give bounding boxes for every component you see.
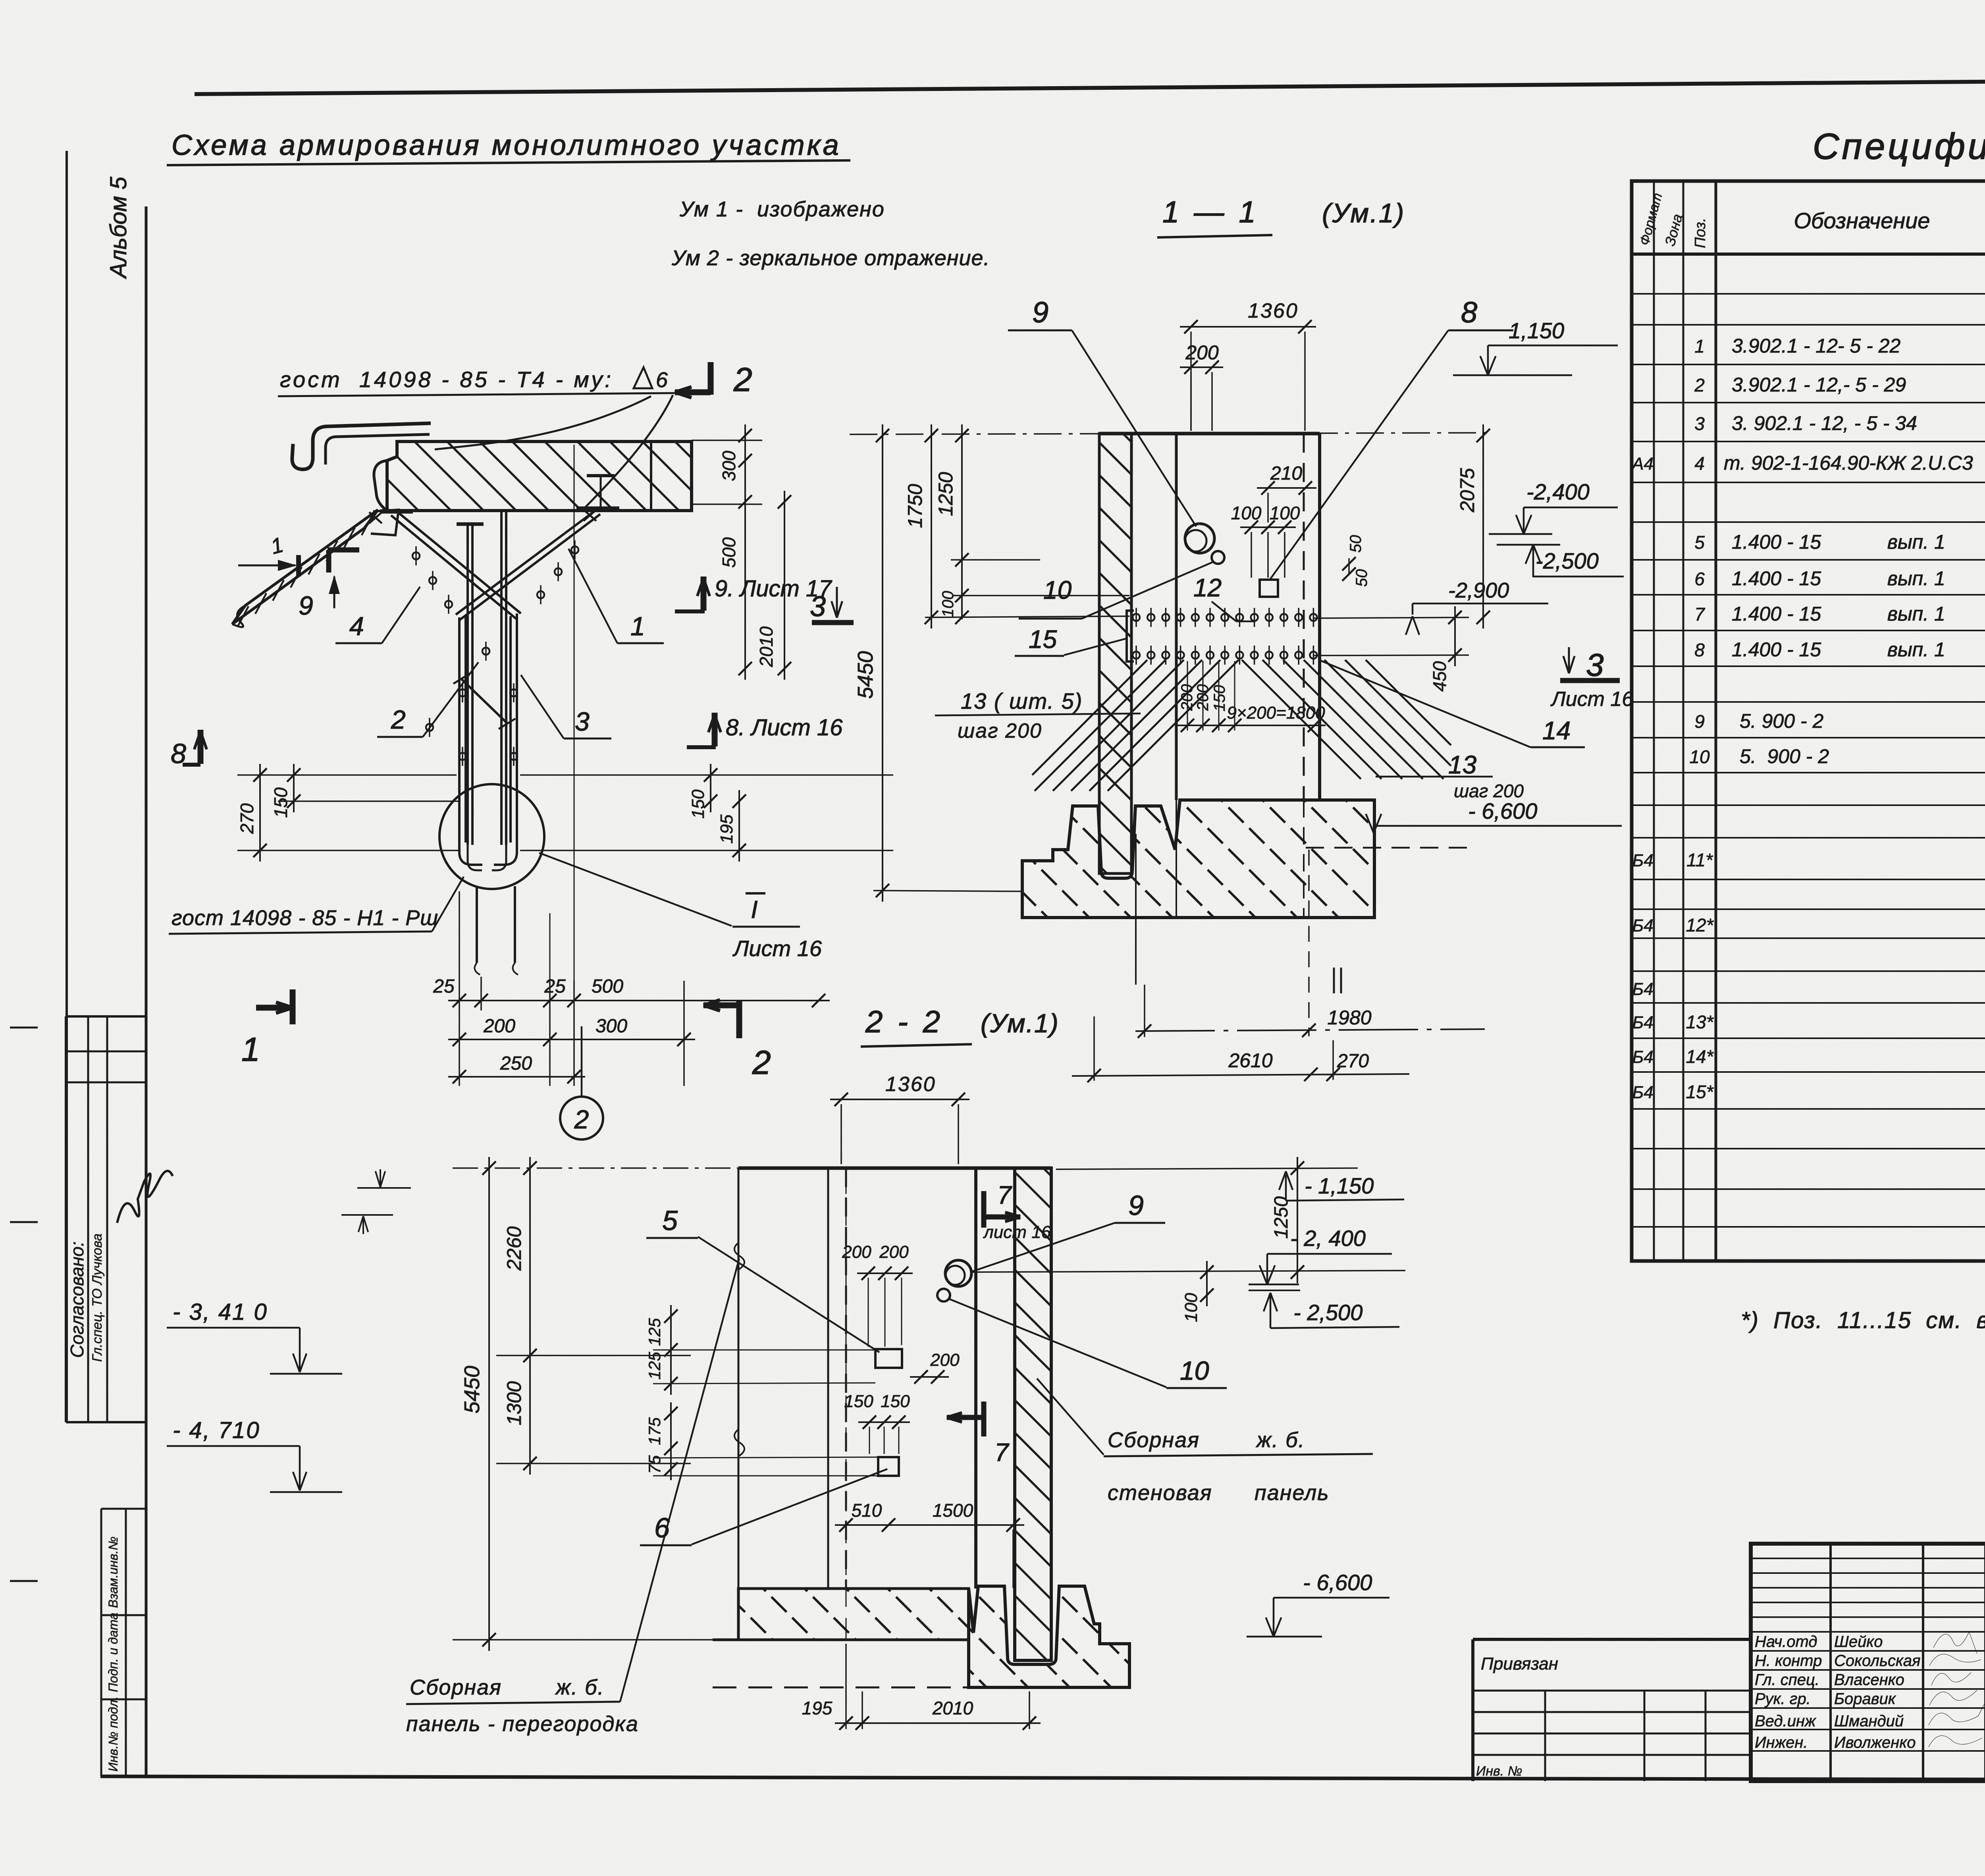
svg-text:300: 300	[719, 451, 739, 481]
svg-text:510: 510	[852, 1500, 882, 1521]
small dims 125/125/175/75 (2-2)	[670, 1305, 672, 1395]
svg-text:панель: панель	[1255, 1481, 1330, 1505]
leader from N1 note to hook	[432, 877, 464, 931]
section 1-1: anchor dots row 1	[1133, 614, 1140, 621]
svg-text:8. Лист 16: 8. Лист 16	[726, 715, 843, 740]
frame top border	[195, 78, 1985, 94]
svg-text:Иволженко: Иволженко	[1834, 1734, 1916, 1751]
svg-text:Рук. гр.: Рук. гр.	[1755, 1690, 1811, 1708]
svg-text:ж. б.: ж. б.	[555, 1675, 605, 1699]
svg-text:1: 1	[1694, 336, 1705, 357]
svg-text:панель - перегородка: панель - перегородка	[406, 1712, 639, 1736]
svg-text:270: 270	[237, 803, 257, 834]
dim 200/200 above square (2-2)	[857, 1273, 913, 1274]
svg-text:13 ( шт. 5): 13 ( шт. 5)	[961, 688, 1083, 713]
svg-text:- 6,600: - 6,600	[1303, 1570, 1372, 1595]
svg-text:13: 13	[1448, 750, 1477, 779]
left hook dims 270/150	[259, 764, 261, 862]
panel hatch strokes	[362, 515, 373, 535]
svg-text:15: 15	[1029, 625, 1057, 654]
svg-text:125: 125	[645, 1318, 664, 1346]
section mark 1 (bottom)	[290, 989, 296, 1024]
svg-text:100: 100	[1181, 1293, 1201, 1322]
leader curves from weld note	[584, 395, 673, 508]
section 1-1: foundation dashed lines	[1306, 847, 1469, 849]
svg-text:Б4: Б4	[1632, 1047, 1653, 1067]
section 2-2: inner thick line	[974, 1168, 977, 1589]
section 2-2: foundation bottom lines	[713, 1639, 969, 1641]
left dim chain 2260/1300 (2-2)	[453, 1167, 738, 1169]
detail circle (node I)	[439, 784, 544, 889]
svg-text:Инв. №: Инв. №	[1476, 1764, 1522, 1779]
section 1-1: foundation outline	[1022, 800, 1374, 918]
svg-text:5. 900 - 2: 5. 900 - 2	[1740, 710, 1823, 732]
svg-text:Б4: Б4	[1632, 979, 1653, 999]
section 1-1: gland sleeve Du150 (pos 9)	[1185, 524, 1214, 553]
svg-text:8: 8	[1461, 296, 1477, 329]
svg-text:Взам.инв.№: Взам.инв.№	[106, 1537, 120, 1608]
svg-text:3: 3	[810, 591, 826, 623]
bottom dims of 1-1: 2610 / 270	[1072, 1074, 1409, 1076]
svg-text:7: 7	[997, 1181, 1012, 1209]
svg-text:4: 4	[349, 611, 364, 641]
svg-text:2260: 2260	[503, 1226, 525, 1271]
svg-text:Ум 2 - зеркальное отражение.: Ум 2 - зеркальное отражение.	[671, 246, 990, 270]
svg-text:1360: 1360	[1248, 299, 1299, 322]
bottom dims of 1-1: 1980	[1135, 1029, 1485, 1031]
approval strip box	[65, 1016, 67, 1422]
svg-text:1500: 1500	[933, 1500, 973, 1521]
svg-text:14*: 14*	[1686, 1046, 1714, 1067]
total 5450 (2-2)	[488, 1157, 490, 1651]
svg-text:100: 100	[1270, 503, 1300, 523]
svg-text:100: 100	[1231, 503, 1262, 523]
svg-text:150: 150	[270, 787, 291, 818]
detail: panel tip interlock block	[371, 510, 399, 535]
svg-text:т. 902-1-164.90-КЖ 2.U.С3: т. 902-1-164.90-КЖ 2.U.С3	[1724, 452, 1973, 474]
svg-text:175: 175	[645, 1417, 664, 1445]
section mark 2 (top)	[708, 362, 714, 395]
svg-text:250: 250	[500, 1053, 532, 1074]
svg-text:лист 16: лист 16	[983, 1222, 1051, 1242]
thin upper rows of staff table	[1751, 1558, 1985, 1559]
dim 150/150 (2-2)	[858, 1421, 910, 1423]
twin stub lines below foundation	[1333, 968, 1335, 993]
svg-text:Шейко: Шейко	[1834, 1633, 1883, 1650]
left dim chain 1750/1250/100 (1-1)	[925, 616, 1129, 617]
section 2-2: embed square pos5	[875, 1349, 902, 1368]
svg-text:- 4, 710: - 4, 710	[173, 1417, 260, 1443]
svg-text:Поз.: Поз.	[1692, 218, 1709, 248]
svg-text:200: 200	[1185, 341, 1219, 364]
svg-text:2: 2	[574, 1105, 589, 1134]
dim 100 100 (1-1)	[1240, 526, 1296, 528]
detail: bottom dim line 25/25/500	[448, 1000, 830, 1001]
section mark 2 (bottom)	[736, 1001, 742, 1038]
svg-text:500: 500	[592, 976, 623, 997]
svg-text:200: 200	[879, 1242, 909, 1262]
svg-text:5: 5	[662, 1205, 678, 1236]
svg-text:1 — 1: 1 — 1	[1162, 195, 1259, 229]
section 1-1: embed plate MH (pos 8)	[1260, 580, 1278, 597]
svg-text:А4: А4	[1631, 454, 1654, 474]
dim 195/2010 (2-2)	[835, 1722, 1041, 1724]
svg-text:200: 200	[1178, 684, 1196, 711]
svg-text:3: 3	[1694, 413, 1705, 434]
svg-text:(Ум.1): (Ум.1)	[1322, 198, 1405, 228]
section 2-2: mirror dashed line	[845, 1168, 847, 1589]
right side dim chain 300/500/2010	[692, 440, 762, 441]
section 1-1: bracket at dots	[1127, 611, 1134, 661]
right dim 100 (2-2)	[1206, 1261, 1208, 1306]
svg-text:50: 50	[1347, 535, 1364, 553]
section 1-1: dashed edge into foundation	[1303, 800, 1305, 918]
fold marks on left edge	[10, 1027, 38, 1029]
svg-text:Спецификация Ум 1, Ум 2.: Спецификация Ум 1, Ум 2.	[1813, 126, 1985, 167]
svg-text:2010: 2010	[932, 1698, 973, 1718]
svg-text:2010: 2010	[756, 626, 777, 667]
svg-text:1250: 1250	[935, 472, 957, 516]
central hanger 2	[500, 511, 503, 845]
extension stubs below foundation	[1144, 985, 1145, 1037]
spec table header	[1632, 253, 1985, 256]
spec table outer box	[1632, 181, 1985, 1261]
svg-text:9: 9	[1032, 296, 1048, 329]
svg-text:3. 902.1 - 12, - 5 - 34: 3. 902.1 - 12, - 5 - 34	[1732, 412, 1917, 434]
svg-text:Вед.инж: Вед.инж	[1755, 1712, 1816, 1730]
svg-text:1980: 1980	[1327, 1006, 1371, 1029]
svg-text:150: 150	[881, 1392, 910, 1411]
svg-text:1750: 1750	[904, 484, 926, 528]
svg-text:270: 270	[1337, 1051, 1369, 1072]
svg-text:25: 25	[544, 976, 566, 997]
svg-text:13*: 13*	[1686, 1012, 1714, 1032]
svg-text:14: 14	[1542, 716, 1571, 745]
svg-text:I: I	[751, 896, 757, 924]
svg-text:1: 1	[630, 611, 645, 641]
stirrup dots on stem	[459, 689, 466, 696]
svg-text:Ум 1 - изображено: Ум 1 - изображено	[679, 197, 885, 221]
svg-text:Сборная: Сборная	[410, 1675, 502, 1699]
section 1-1: joint line	[1175, 434, 1178, 800]
svg-text:9×200=1800: 9×200=1800	[1227, 703, 1325, 723]
total dim 5450 (1-1)	[882, 424, 883, 902]
svg-text:Обозначение: Обозначение	[1794, 208, 1930, 233]
svg-text:Гл.спец. ТО Лучкова: Гл.спец. ТО Лучкова	[90, 1234, 105, 1362]
small level flags near 2-2 top-left	[380, 1169, 381, 1186]
svg-text:Б4: Б4	[1632, 851, 1653, 870]
svg-text:1.400 - 15 вып. 1: 1.400 - 15 вып. 1	[1732, 531, 1945, 553]
section 1-1: precast panel strip (hatched)	[1099, 434, 1131, 873]
detail: dim line 200/300	[448, 1039, 695, 1040]
svg-text:6: 6	[656, 368, 668, 392]
svg-text:2: 2	[1694, 375, 1705, 395]
section 1-1: gland sleeve Du50 (pos 10)	[1212, 551, 1224, 564]
detail: inclined precast panel (hatched)	[232, 510, 378, 624]
svg-text:- 2,500: - 2,500	[1293, 1300, 1363, 1325]
svg-text:2 - 2: 2 - 2	[865, 1004, 943, 1039]
diagonal fixer bar with end ticks	[461, 679, 507, 723]
svg-text:5450: 5450	[854, 651, 877, 699]
approval strip: signature squiggle	[117, 1171, 173, 1223]
svg-text:3: 3	[1586, 647, 1604, 683]
svg-text:Власенко: Власенко	[1834, 1671, 1904, 1689]
svg-text:3.902.1 - 12- 5 - 22: 3.902.1 - 12- 5 - 22	[1732, 335, 1900, 357]
lower stamp strip boxes	[100, 1509, 102, 1776]
svg-text:195: 195	[802, 1698, 833, 1718]
svg-text:Согласовано:: Согласовано:	[67, 1242, 87, 1358]
svg-text:2: 2	[733, 361, 752, 398]
svg-text:7: 7	[994, 1438, 1010, 1467]
detail: panel break line	[232, 605, 245, 627]
svg-text:6: 6	[1694, 569, 1705, 589]
privyazan table	[1473, 1638, 1751, 1641]
sheet outer left edge line	[66, 151, 68, 1422]
svg-text:12*: 12*	[1686, 915, 1714, 935]
extension verticals for bottom dims	[549, 981, 551, 1086]
svg-text:Б4: Б4	[1632, 1013, 1653, 1032]
svg-text:*) Поз. 11...15 см. ведомо: *) Поз. 11...15 см. ведомость деталей на…	[1741, 1307, 1985, 1333]
detail: top slab with hatch	[387, 442, 692, 511]
svg-text:гост 14098 - 85 - Н1 - Рш: гост 14098 - 85 - Н1 - Рш	[172, 906, 438, 930]
svg-text:- 1,150: - 1,150	[1305, 1173, 1374, 1198]
dim 510/1500 (2-2)	[835, 1524, 1024, 1526]
right dim 1250 (2-2)	[973, 1271, 1405, 1272]
svg-text:8: 8	[1694, 640, 1705, 660]
frame bottom border	[100, 1776, 1985, 1780]
section 1-1: axis line at wall top	[850, 433, 1489, 434]
svg-text:-2,400: -2,400	[1526, 479, 1590, 504]
svg-text:1.400 - 15 вып. 1: 1.400 - 15 вып. 1	[1732, 603, 1945, 625]
svg-text:гост 14098 - 85 - Т4 - му:: гост 14098 - 85 - Т4 - му:	[280, 367, 613, 392]
svg-text:10: 10	[1180, 1356, 1209, 1385]
svg-text:100: 100	[939, 591, 957, 617]
svg-text:1360: 1360	[885, 1073, 936, 1096]
svg-text:4: 4	[1694, 453, 1705, 474]
section 1-1: joint line continuation through foundation	[1176, 800, 1177, 918]
svg-text:500: 500	[719, 537, 739, 568]
svg-text:Гл. спец.: Гл. спец.	[1755, 1671, 1819, 1689]
svg-text:Н. контр: Н. контр	[1755, 1652, 1822, 1670]
panel walls below joint	[476, 886, 478, 963]
Y reinforcement left leg (double bar, crosses to right stem bar)	[391, 515, 517, 619]
leader from circle to node mark	[539, 853, 732, 926]
section 2-2: gland Du150	[945, 1260, 971, 1286]
svg-text:Инжен.: Инжен.	[1755, 1734, 1808, 1751]
svg-text:-2,900: -2,900	[1448, 578, 1509, 602]
section mark 7 lower	[981, 1402, 987, 1436]
dim 450 (right)	[1314, 617, 1469, 618]
svg-text:150: 150	[688, 789, 708, 819]
svg-text:10: 10	[1689, 746, 1710, 767]
svg-text:50: 50	[1353, 569, 1370, 587]
svg-text:125: 125	[645, 1352, 664, 1380]
slab joint line right	[650, 442, 652, 511]
svg-text:300: 300	[595, 1016, 627, 1037]
svg-text:Нач.отд: Нач.отд	[1755, 1633, 1817, 1650]
svg-text:- 6,600: - 6,600	[1468, 798, 1537, 823]
section 1-1: anchor dots row 2	[1133, 652, 1140, 659]
svg-text:- 2, 400: - 2, 400	[1290, 1226, 1366, 1251]
svg-text:- 3, 41 0: - 3, 41 0	[173, 1299, 268, 1325]
anchor T on slab right	[600, 476, 602, 509]
svg-text:450: 450	[1429, 661, 1450, 692]
svg-text:Шмандий: Шмандий	[1834, 1712, 1904, 1730]
svg-text:3: 3	[575, 707, 590, 736]
svg-text:1250: 1250	[1271, 1196, 1292, 1239]
svg-text:Боравик: Боравик	[1834, 1690, 1896, 1708]
svg-text:Подп. и дата: Подп. и дата	[106, 1613, 120, 1692]
svg-text:12: 12	[1193, 573, 1222, 602]
svg-text:1.400 - 15 вып. 1: 1.400 - 15 вып. 1	[1732, 567, 1945, 590]
svg-text:(Ум.1): (Ум.1)	[981, 1008, 1059, 1038]
stem right double bar	[509, 616, 512, 843]
svg-text:шаг 200: шаг 200	[958, 719, 1042, 742]
svg-text:1300: 1300	[503, 1381, 525, 1425]
svg-text:Б4: Б4	[1632, 1083, 1653, 1102]
svg-text:5450: 5450	[460, 1366, 484, 1413]
section 1-1: bar fan lower-right (pos 13)	[1242, 660, 1361, 779]
svg-text:2075: 2075	[1456, 468, 1478, 513]
svg-text:25: 25	[433, 976, 455, 997]
svg-text:3.902.1 - 12,- 5 - 29: 3.902.1 - 12,- 5 - 29	[1732, 374, 1906, 396]
section 2-2: embed square pos6	[878, 1457, 899, 1476]
svg-text:9: 9	[299, 591, 313, 620]
title block outer	[1751, 1544, 1985, 1781]
svg-text:5. 900 - 2: 5. 900 - 2	[1740, 745, 1829, 767]
detail: slab left curb (rounded channel)	[292, 423, 431, 469]
svg-text:9: 9	[1128, 1190, 1144, 1221]
svg-text:1: 1	[241, 1031, 260, 1068]
dim 2075 (right)	[1482, 424, 1484, 629]
svg-text:11*: 11*	[1686, 850, 1713, 870]
staff columns	[1829, 1544, 1832, 1781]
svg-text:150: 150	[844, 1392, 873, 1411]
svg-text:1.400 - 15 вып. 1: 1.400 - 15 вып. 1	[1732, 638, 1945, 661]
svg-text:Лист 16: Лист 16	[732, 936, 822, 961]
right hook dims 150/195	[520, 774, 893, 776]
section mark 9 (left)	[328, 548, 359, 553]
bottom hooks of stem bars	[459, 843, 482, 865]
weld x marks	[369, 512, 382, 523]
svg-text:Схема армирования монолитного: Схема армирования монолитного участка	[172, 129, 841, 161]
svg-text:2610: 2610	[1228, 1049, 1272, 1072]
section 2-2: foundation left slab	[738, 1589, 969, 1640]
svg-text:Сборная: Сборная	[1108, 1428, 1200, 1452]
staff rows	[1751, 1650, 1985, 1652]
central hanger 1 with T head	[457, 523, 484, 526]
svg-text:195: 195	[717, 814, 736, 844]
section 1-1: dashed edge line	[1303, 434, 1305, 800]
frame left border	[145, 206, 148, 1777]
section 2-2: gland Du50	[937, 1289, 950, 1301]
Y reinforcement right leg (double bar, crosses to left stem bar)	[459, 514, 600, 620]
svg-text:2: 2	[752, 1044, 771, 1081]
svg-text:200: 200	[1194, 684, 1212, 711]
svg-text:150: 150	[1211, 685, 1228, 711]
svg-text:200: 200	[930, 1350, 960, 1370]
svg-text:Сокольская: Сокольская	[1834, 1652, 1920, 1670]
dim 200 (1-1)	[1180, 366, 1223, 368]
svg-text:Альбом 5: Альбом 5	[106, 176, 131, 279]
svg-text:2: 2	[391, 705, 406, 734]
svg-text:210: 210	[1270, 463, 1302, 484]
staff signatures	[1933, 1632, 1977, 1654]
svg-text:ж. б.: ж. б.	[1256, 1428, 1305, 1452]
svg-text:Б4: Б4	[1632, 916, 1653, 935]
circled node 2	[581, 1026, 583, 1097]
section mark 9 sheet 17 (right)	[701, 576, 707, 611]
section 2-2: left break edge	[738, 1168, 740, 1589]
dim 210 (1-1)	[1257, 487, 1316, 489]
svg-text:Привязан: Привязан	[1481, 1654, 1558, 1674]
svg-text:7: 7	[1694, 604, 1705, 625]
svg-text:1,150: 1,150	[1509, 318, 1564, 343]
svg-text:Лист 16: Лист 16	[1550, 688, 1633, 711]
section 1-1: wall outline	[1099, 432, 1320, 436]
section 2-2: joint thin line	[827, 1168, 829, 1589]
weld plate marks at leg tops	[380, 509, 413, 514]
section 1-1: bar fan lower-left (pos 13)	[1032, 660, 1147, 775]
stirrup dots on legs	[412, 552, 420, 559]
svg-text:Инв.№ подл.: Инв.№ подл.	[106, 1696, 120, 1772]
section 2-2: precast panel strip (hatched)	[1015, 1168, 1051, 1660]
svg-text:200: 200	[483, 1016, 515, 1037]
svg-text:15*: 15*	[1686, 1082, 1714, 1102]
section mark 8 sheet 16 (right)	[712, 713, 718, 746]
svg-text:5: 5	[1694, 532, 1705, 553]
detail: dim line 250	[448, 1076, 585, 1078]
spec table row lines	[1632, 293, 1985, 295]
svg-text:10: 10	[1043, 576, 1072, 604]
dim 9x200=1800 (1-1)	[1176, 725, 1326, 726]
svg-text:стеновая: стеновая	[1108, 1481, 1212, 1505]
dim 1360 (1-1)	[1180, 326, 1316, 328]
svg-text:9: 9	[1694, 711, 1705, 732]
dim 1360 (2-2)	[830, 1099, 969, 1100]
svg-text:-2,500: -2,500	[1536, 548, 1599, 573]
section 2-2: foundation right block with socket	[969, 1586, 1129, 1687]
stem left double bar	[458, 617, 461, 843]
section mark 1 (upper, at slab)	[296, 555, 301, 576]
section 2-2: wall top	[738, 1166, 1051, 1170]
hook level extension lines (left)	[237, 774, 457, 776]
